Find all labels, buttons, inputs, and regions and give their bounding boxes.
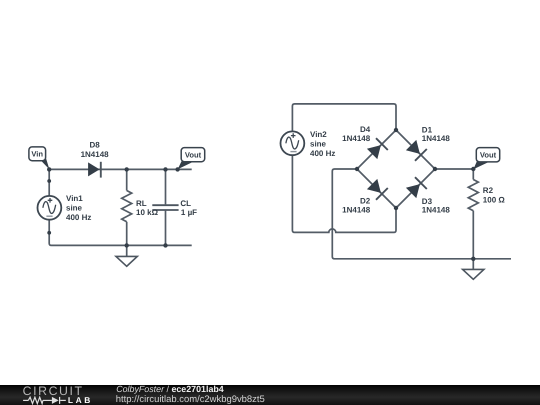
svg-text:http://circuitlab.com/c2wkbg9v: http://circuitlab.com/c2wkbg9vb8zt5 xyxy=(116,394,265,405)
svg-text:LAB: LAB xyxy=(68,395,93,405)
svg-text:ColbyFoster / ece2701lab4: ColbyFoster / ece2701lab4 xyxy=(116,384,224,394)
